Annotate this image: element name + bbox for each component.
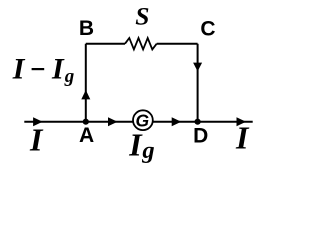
svg-text:I: I: [235, 120, 250, 156]
svg-text:B: B: [79, 17, 94, 40]
svg-text:D: D: [193, 124, 208, 147]
svg-text:C: C: [200, 18, 215, 41]
svg-text:I: I: [29, 122, 44, 158]
svg-text:I: I: [128, 127, 143, 163]
svg-text:A: A: [79, 124, 94, 147]
svg-text:g: g: [141, 137, 154, 164]
svg-text:g: g: [64, 66, 75, 87]
svg-text:I: I: [12, 53, 26, 86]
svg-text:I: I: [51, 53, 65, 86]
svg-text:S: S: [135, 2, 149, 31]
svg-text:G: G: [135, 111, 149, 131]
